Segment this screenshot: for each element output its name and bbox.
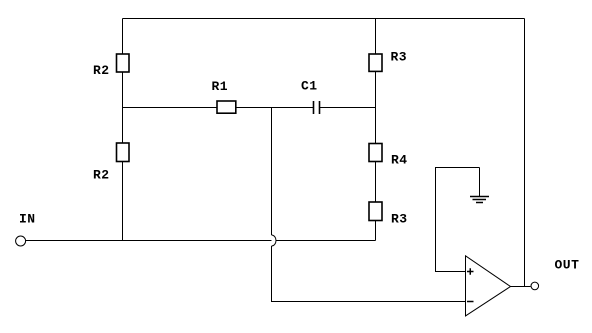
svg-text:R4: R4 [391, 153, 408, 168]
capacitor C1 [314, 101, 320, 114]
wire C1 right plate to R3/R4 node [320, 107, 376, 109]
svg-text:OUT: OUT [555, 258, 580, 273]
node OUT port [531, 282, 539, 290]
svg-text:C1: C1 [301, 78, 318, 93]
wire right rail to output [524, 19, 526, 287]
wire left vertical (R2 chain) [122, 19, 124, 241]
node IN port [16, 236, 26, 246]
wire op-amp output [511, 286, 531, 288]
wire IN horizontal [26, 240, 376, 242]
wire right vertical (R3/R4/R3 chain) [375, 19, 377, 241]
resistor R3 (bottom) [369, 202, 382, 221]
svg-text:R3: R3 [391, 50, 408, 65]
wire feedback vertical upper [271, 108, 273, 236]
resistor R2 (top) [117, 54, 130, 72]
ground [470, 168, 489, 203]
resistor R4 [369, 144, 382, 162]
resistor R2 (bottom) [117, 143, 130, 162]
wire hop arc [272, 235, 277, 246]
svg-text:IN: IN [19, 212, 36, 227]
op-amp U1 [466, 256, 511, 316]
wire non-inverting input loop [436, 168, 480, 272]
wire middle horizontal (R1 to C1 left plate) [123, 107, 314, 109]
svg-text:R2: R2 [93, 63, 110, 78]
resistor R3 (top) [369, 54, 382, 71]
svg-text:R1: R1 [212, 79, 229, 94]
svg-text:R3: R3 [391, 212, 408, 227]
wire top rail [123, 18, 525, 20]
svg-text:R2: R2 [93, 168, 110, 183]
wire feedback vertical lower to inverting input [272, 246, 466, 302]
resistor R1 [217, 101, 236, 113]
